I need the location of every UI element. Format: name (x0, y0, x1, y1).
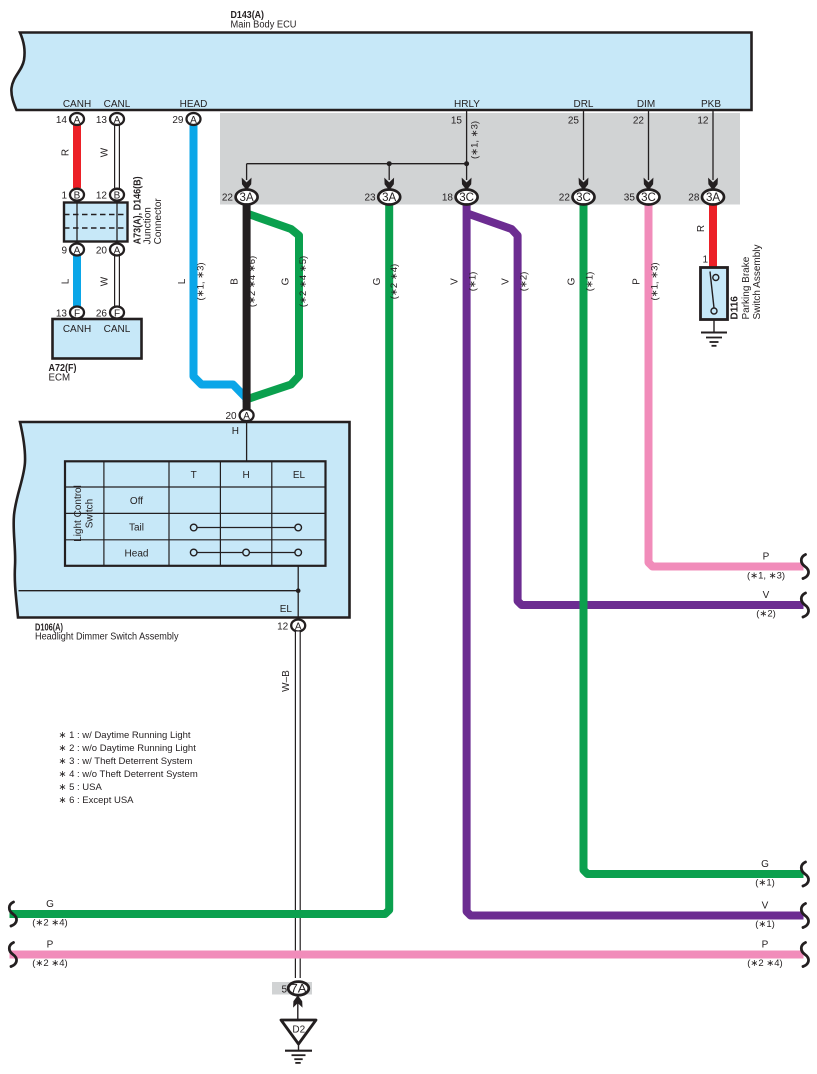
ground apex lead (298, 1044, 300, 1051)
pin oval 20(A) junction (96, 244, 124, 257)
svg-text:P: P (763, 552, 770, 563)
wire stub to 22(3A) (246, 164, 248, 180)
continuation squiggle V right (*1) (801, 904, 808, 928)
svg-text:L: L (61, 278, 72, 284)
svg-text:A: A (295, 621, 302, 632)
Head row contact line (194, 552, 299, 554)
svg-text:3A: 3A (706, 192, 720, 204)
svg-text:(∗2 ∗4): (∗2 ∗4) (32, 958, 67, 969)
svg-text:G: G (372, 277, 383, 285)
junction dot on HRLY wire (464, 161, 469, 166)
svg-text:F: F (74, 308, 80, 319)
connector oval 18(3C) (442, 190, 478, 205)
svg-text:T: T (191, 470, 197, 481)
svg-text:13: 13 (96, 115, 108, 126)
svg-text:R: R (61, 149, 72, 156)
svg-text:Headlight Dimmer Switch Assemb: Headlight Dimmer Switch Assembly (35, 632, 179, 643)
wire B (black) (243, 197, 251, 412)
junction dot EL (296, 588, 301, 593)
svg-text:P: P (762, 940, 769, 951)
svg-text:28: 28 (688, 193, 700, 204)
wire PKB pin 12 vertical (712, 110, 714, 180)
svg-text:HEAD: HEAD (180, 99, 208, 110)
svg-text:20: 20 (96, 246, 108, 257)
svg-text:H: H (232, 426, 239, 437)
svg-text:(∗2 ∗4): (∗2 ∗4) (389, 264, 400, 299)
pin oval 14(A) CANH (56, 113, 84, 126)
svg-text:∗ 5 : USA: ∗ 5 : USA (59, 782, 103, 793)
D116 ground lead (713, 320, 715, 333)
svg-text:(∗1, ∗3): (∗1, ∗3) (650, 262, 661, 300)
svg-text:(∗1, ∗3): (∗1, ∗3) (196, 262, 207, 300)
wire V (*1) from 18(3C) (467, 197, 804, 916)
svg-text:Switch Assembly: Switch Assembly (752, 244, 763, 319)
svg-text:PKB: PKB (701, 99, 721, 110)
svg-text:CANH: CANH (63, 99, 91, 110)
splice 5(7A) gray tag (272, 982, 312, 995)
svg-text:A: A (114, 115, 121, 126)
svg-text:22: 22 (559, 193, 571, 204)
svg-text:CANL: CANL (104, 99, 131, 110)
svg-text:A: A (114, 245, 121, 256)
svg-text:13: 13 (56, 309, 68, 320)
junction connector A73(A)/D146(B) box (64, 203, 128, 242)
svg-text:DRL: DRL (573, 99, 593, 110)
arrow into 22(3C) (579, 178, 589, 191)
continuation squiggle V right (*2) (801, 593, 808, 617)
svg-text:20: 20 (225, 411, 237, 422)
svg-text:HRLY: HRLY (454, 99, 480, 110)
wire DIM pin 22 vertical (648, 110, 650, 180)
arrow into 28(3A) (708, 178, 718, 191)
connector oval 35(3C) (624, 190, 660, 205)
svg-text:1: 1 (61, 191, 67, 202)
wire P (*2 *4) bottom (10, 951, 804, 959)
svg-text:Light Control: Light Control (73, 485, 84, 542)
svg-text:W: W (100, 276, 111, 286)
wire W (CANL to ECM) (114, 252, 120, 308)
svg-text:22: 22 (633, 116, 645, 127)
continuation squiggle P right (*1,*3) (801, 555, 808, 579)
Head contact EL (295, 549, 302, 556)
pin oval 26(F) (96, 307, 124, 320)
ground triangle D2 (281, 1020, 316, 1044)
wire L (CANH to ECM) (73, 252, 81, 308)
wire P (*1, *3) from 35(3C) (649, 197, 804, 567)
svg-text:Off: Off (130, 496, 143, 507)
Tail row contact line (194, 527, 299, 529)
svg-text:5: 5 (281, 985, 287, 996)
svg-text:3C: 3C (576, 192, 591, 204)
continuation squiggle P right (*2 *4) (801, 943, 808, 967)
connector oval 22(3A) (222, 190, 258, 205)
ECU D143(A) box (11, 33, 751, 111)
svg-text:7A: 7A (291, 984, 307, 996)
svg-text:(∗2): (∗2) (756, 609, 776, 620)
pin oval 1(B) (61, 189, 84, 202)
pin oval 9(A) (61, 244, 84, 257)
wire R (PKB) (709, 197, 717, 267)
wire G (*2 *4) crossing over W-B (285, 910, 312, 918)
pin oval 20(A) headlight switch (225, 409, 253, 422)
svg-text:3C: 3C (641, 192, 656, 204)
svg-text:∗ 4 : w/o Theft Deterrent Syst: ∗ 4 : w/o Theft Deterrent System (59, 769, 198, 780)
svg-text:V: V (450, 278, 461, 285)
svg-text:Head: Head (125, 549, 149, 560)
svg-text:1: 1 (702, 255, 708, 266)
wire L (HEAD, blue) (194, 123, 247, 402)
svg-text:D2: D2 (292, 1025, 305, 1036)
svg-text:(∗2 ∗4): (∗2 ∗4) (32, 918, 67, 929)
svg-text:F: F (114, 308, 120, 319)
arrow up into 7A (293, 995, 302, 1007)
svg-text:P: P (47, 940, 54, 951)
wire G (*2 *4) from 23(3A) (10, 197, 390, 914)
svg-text:A: A (243, 411, 250, 422)
svg-text:(∗2 ∗4 ∗6): (∗2 ∗4 ∗6) (247, 256, 258, 307)
pin oval 29(A) HEAD (172, 113, 200, 126)
junction dot above 23(3A) (387, 161, 392, 166)
svg-text:EL: EL (280, 604, 293, 615)
svg-text:W: W (100, 147, 111, 157)
notes legend (59, 730, 198, 806)
svg-text:9: 9 (61, 246, 67, 257)
shield/gray routing box (220, 113, 740, 205)
wire V (*2) branch (468, 214, 804, 606)
wire W (CANL) (114, 123, 120, 188)
wire H into switch table (246, 423, 248, 462)
svg-text:CANL: CANL (104, 324, 131, 335)
svg-text:23: 23 (364, 193, 376, 204)
svg-text:Main Body ECU: Main Body ECU (231, 20, 297, 31)
svg-text:A: A (190, 115, 197, 126)
svg-text:A: A (74, 115, 81, 126)
wire stub to 23(3A) (388, 164, 390, 180)
svg-text:3C: 3C (459, 192, 474, 204)
wire G (*2 *4 *5) branch (247, 214, 299, 400)
svg-text:R: R (696, 225, 707, 232)
svg-text:G: G (46, 899, 54, 910)
svg-text:B: B (230, 278, 241, 285)
wire horizontal branch in gray box (247, 163, 467, 165)
wire R (CANH) (73, 123, 81, 188)
svg-text:(∗1): (∗1) (755, 878, 775, 889)
svg-text:L: L (177, 278, 188, 284)
arrow into 35(3C) (644, 178, 654, 191)
svg-text:CANH: CANH (63, 324, 91, 335)
svg-text:(∗1): (∗1) (585, 272, 596, 292)
svg-text:Tail: Tail (129, 523, 144, 534)
svg-text:3A: 3A (382, 192, 396, 204)
svg-text:25: 25 (568, 116, 580, 127)
svg-text:(∗2 ∗4 ∗5): (∗2 ∗4 ∗5) (298, 256, 309, 307)
svg-text:(∗2 ∗4): (∗2 ∗4) (747, 958, 782, 969)
pin oval 13(A) CANL (96, 113, 124, 126)
svg-text:35: 35 (624, 193, 636, 204)
svg-text:Switch: Switch (85, 499, 96, 528)
Head contact T (190, 549, 197, 556)
D106(A) headlight dimmer switch box (14, 422, 350, 618)
svg-text:29: 29 (172, 115, 184, 126)
pin oval 12(A) (277, 620, 305, 633)
svg-text:Junction: Junction (143, 207, 154, 244)
continuation squiggle G right (*1) (801, 862, 808, 886)
svg-text:Parking Brake: Parking Brake (741, 256, 752, 319)
ground symbol D2 (285, 1051, 312, 1063)
continuation squiggle G left (*2 *4) (9, 902, 16, 926)
pin oval 13(F) (56, 307, 84, 320)
ECM A72(F) box (53, 319, 142, 359)
svg-text:12: 12 (277, 622, 289, 633)
arrow into 23(3A) (384, 178, 394, 191)
svg-text:G: G (761, 859, 769, 870)
svg-text:V: V (763, 590, 770, 601)
svg-text:(∗1): (∗1) (468, 272, 479, 292)
wire W-B (295, 632, 301, 979)
arrow into 18(3C) (462, 178, 472, 191)
svg-text:DIM: DIM (637, 99, 655, 110)
svg-text:ECM: ECM (49, 373, 71, 384)
svg-text:3A: 3A (240, 192, 254, 204)
continuation squiggle P left (*2 *4) (9, 943, 16, 967)
wire EL horizontal to left edge (19, 590, 299, 592)
arrow into 22(3A) (242, 178, 252, 191)
svg-text:14: 14 (56, 115, 68, 126)
svg-text:B: B (74, 191, 81, 202)
svg-text:G: G (567, 277, 578, 285)
splice oval 7A (288, 982, 309, 996)
wire EL output vertical (297, 566, 299, 620)
pin oval 12(B) (96, 189, 124, 202)
svg-text:G: G (281, 277, 292, 285)
D116 parking brake switch box (701, 268, 728, 320)
svg-text:12: 12 (96, 191, 108, 202)
svg-text:12: 12 (697, 116, 709, 127)
svg-text:∗ 2 : w/o Daytime Running Ligh: ∗ 2 : w/o Daytime Running Light (59, 743, 197, 754)
svg-text:B: B (114, 191, 121, 202)
wire G (*1) from 22(3C) (584, 197, 804, 874)
Tail contact EL (295, 524, 302, 531)
svg-text:22: 22 (222, 193, 234, 204)
svg-text:26: 26 (96, 309, 108, 320)
wire DRL pin 25 vertical (583, 110, 585, 180)
connector oval 22(3C) (559, 190, 595, 205)
svg-text:18: 18 (442, 193, 454, 204)
svg-text:A: A (74, 245, 81, 256)
connector oval 23(3A) (364, 190, 400, 205)
Head contact H (243, 549, 250, 556)
Tail contact T (190, 524, 197, 531)
switch table frame (65, 461, 326, 566)
svg-text:EL: EL (293, 470, 306, 481)
svg-text:W–B: W–B (281, 670, 292, 692)
connector oval 28(3A) (688, 190, 724, 205)
svg-text:D116: D116 (730, 296, 741, 320)
svg-text:(∗1, ∗3): (∗1, ∗3) (747, 571, 785, 582)
svg-text:Connector: Connector (153, 198, 164, 245)
wire HRLY pin 15 vertical (466, 110, 468, 180)
svg-text:(∗1): (∗1) (755, 919, 775, 930)
svg-text:P: P (632, 278, 643, 285)
D116 ground symbol (701, 333, 727, 346)
svg-text:(∗2): (∗2) (519, 272, 530, 292)
svg-text:∗ 3 : w/ Theft Deterrent Syste: ∗ 3 : w/ Theft Deterrent System (59, 756, 193, 767)
svg-text:V: V (762, 901, 769, 912)
svg-text:∗ 6 : Except USA: ∗ 6 : Except USA (59, 795, 135, 806)
ground lead wire (297, 1003, 299, 1019)
svg-text:H: H (242, 470, 249, 481)
svg-text:15: 15 (451, 116, 463, 127)
svg-text:V: V (501, 278, 512, 285)
svg-text:∗ 1 : w/ Daytime Running Light: ∗ 1 : w/ Daytime Running Light (59, 730, 191, 741)
svg-text:(∗1, ∗3): (∗1, ∗3) (470, 121, 481, 159)
